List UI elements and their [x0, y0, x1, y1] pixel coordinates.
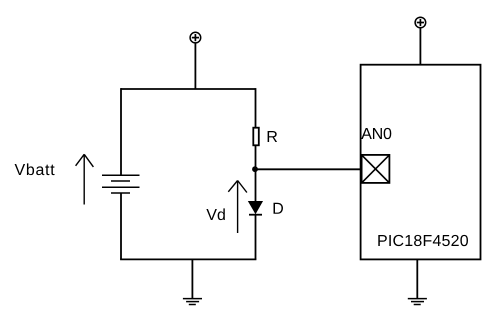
arrow Vd: [228, 181, 247, 234]
diode D: [249, 202, 263, 215]
wire bottom of left loop: [120, 258, 256, 260]
battery Vbatt: [102, 175, 140, 193]
pin AN0 (crossed square): [362, 155, 390, 183]
wire from left power symbol to top wire: [194, 43, 196, 89]
wire top of left loop: [121, 88, 256, 90]
wire junction to diode: [255, 169, 257, 202]
wire from right power symbol to box: [419, 28, 421, 65]
power symbol VCC right: [415, 17, 426, 28]
label Vd: [206, 208, 224, 220]
wire right vertical upper (to resistor): [255, 88, 257, 127]
label PIC18F4520: [378, 235, 468, 246]
IC U1 PIC18F4520 box: [361, 65, 481, 260]
wire resistor to junction: [255, 146, 257, 169]
label Vbatt: [15, 163, 55, 175]
label AN0: [361, 128, 391, 139]
junction node: [252, 166, 258, 172]
ground left: [183, 259, 202, 304]
resistor R: [253, 128, 258, 146]
wire left vertical lower: [120, 193, 122, 259]
wire diode to bottom: [255, 215, 257, 260]
ground right: [408, 259, 427, 304]
power symbol VCC left: [190, 32, 201, 43]
arrow Vbatt: [76, 154, 94, 204]
label R: [268, 131, 278, 142]
label D: [274, 203, 283, 214]
wire junction to AN0 pin: [256, 168, 362, 170]
wire left vertical upper: [120, 88, 122, 175]
